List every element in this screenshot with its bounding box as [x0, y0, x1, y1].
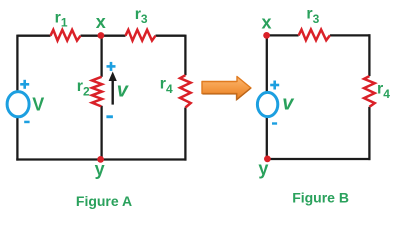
- svg-text:r4: r4: [160, 75, 173, 96]
- svg-text:v: v: [282, 93, 295, 115]
- svg-text:v: v: [117, 80, 130, 102]
- svg-text:r1: r1: [55, 9, 68, 29]
- svg-text:V: V: [32, 95, 44, 115]
- svg-text:y: y: [258, 159, 268, 179]
- svg-text:r4: r4: [377, 81, 390, 102]
- svg-text:r3: r3: [135, 6, 148, 26]
- svg-text:Figure A: Figure A: [76, 193, 132, 209]
- svg-text:x: x: [262, 12, 272, 32]
- svg-text:y: y: [95, 159, 105, 179]
- svg-text:Figure B: Figure B: [292, 190, 349, 206]
- svg-text:x: x: [96, 12, 106, 32]
- svg-text:r3: r3: [306, 6, 319, 27]
- svg-text:r2: r2: [77, 78, 90, 99]
